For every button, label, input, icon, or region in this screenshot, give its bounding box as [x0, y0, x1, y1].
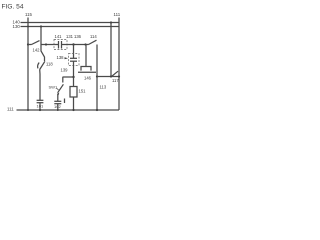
svg-text:114: 114 — [90, 34, 97, 39]
node dot at (73.5,110) — [72, 109, 74, 111]
wire: vertical from node (73.5,44.5) into dashed box 138 — [73, 45, 75, 59]
svg-text:146: 146 — [84, 76, 92, 81]
svg-text:115: 115 — [25, 12, 33, 17]
node dot at (73.5,77) — [72, 76, 74, 78]
wire: horizontal row y=77 from SW1 to node — [63, 76, 74, 78]
node dot on line2 feeding switch 118 — [40, 25, 42, 27]
switch SW1 blade — [58, 84, 64, 93]
svg-text:111: 111 — [7, 106, 14, 111]
node dot at (119,76.5) — [118, 75, 120, 77]
svg-text:139: 139 — [61, 68, 69, 73]
capacitor 141 plates — [58, 41, 60, 49]
svg-text:130: 130 — [13, 24, 21, 29]
capacitor 102 plates — [54, 100, 61, 102]
node dot at (28,26.5) — [27, 26, 29, 28]
wire: top bus line 2 — [21, 26, 120, 28]
wire: SW1 to capacitor 102 — [57, 94, 59, 102]
svg-text:138: 138 — [57, 55, 65, 60]
svg-text:141: 141 — [55, 34, 63, 39]
push button 146 actuator — [85, 45, 87, 67]
node dot at (28,110) — [27, 109, 29, 111]
wire: vertical x=97 from middle row to bottom bus — [96, 45, 98, 111]
wire: bottom bus — [17, 109, 120, 111]
svg-text:FIG. 54: FIG. 54 — [2, 3, 24, 10]
wire: middle row segment from switch 142 to capacitor box 141 — [41, 44, 59, 46]
svg-text:118: 118 — [46, 62, 53, 67]
wire: capacitor 102 to bottom bus — [57, 104, 59, 110]
node dot at (73.5,44.5) — [72, 43, 74, 45]
switch 118 blade — [40, 61, 45, 69]
wire: right switch row y=76.5 — [97, 76, 119, 78]
push button 146 contact bar — [78, 71, 96, 73]
wire: middle row segment from rail to switch 142 — [28, 44, 32, 46]
node dot at (97,110) — [96, 109, 98, 111]
svg-text:142: 142 — [33, 48, 41, 53]
dashed box around capacitor 138 — [69, 54, 80, 66]
node dot at (97,76.5) — [96, 75, 98, 77]
dashed box around capacitor 141 — [54, 40, 67, 50]
wire: right rail 119 — [118, 18, 120, 111]
wire: vertical from line2 down to switch 118 — [41, 27, 45, 62]
svg-text:117: 117 — [112, 78, 119, 83]
node dot at (46,44.5) — [45, 43, 47, 45]
wire: vertical from switch 118 down to capacitor 101 — [39, 70, 41, 101]
switch 117 blade — [112, 71, 119, 76]
wire: middle row segment from capacitor to switch 114 — [62, 44, 89, 46]
node dot at (111,76.5) — [110, 75, 112, 77]
switch SW1 top lead — [62, 77, 64, 83]
svg-text:SW1: SW1 — [49, 85, 58, 90]
switch 118 throw arc — [38, 63, 40, 69]
node dot at left rail on middle row — [27, 43, 29, 45]
capacitor 101 plates — [37, 99, 44, 101]
wire: below box 138 down to node row 77 and resistor — [73, 61, 75, 86]
svg-text:111: 111 — [114, 12, 121, 17]
node dot at (57.8,110) — [57, 109, 59, 111]
push button 146 bridge — [81, 67, 91, 71]
node dot at (38.8,110) — [39, 109, 41, 111]
capacitor 138 plates — [70, 57, 77, 59]
node dot at (86,44.5) — [84, 43, 86, 45]
SW1 label pointer — [56, 88, 58, 90]
switch 142 blade — [32, 41, 40, 45]
switch 114 blade — [89, 40, 97, 44]
node dot at (111,22.5) — [110, 21, 112, 23]
wire: vertical from line1 at x=111 — [110, 23, 112, 77]
svg-text:102: 102 — [54, 104, 61, 109]
svg-text:113: 113 — [100, 85, 107, 90]
svg-text:151: 151 — [79, 89, 87, 94]
tick mark right of capacitor 102 — [64, 99, 66, 104]
wire: resistor to bottom bus — [73, 97, 75, 110]
resistor 151 box — [70, 87, 77, 98]
wire: capacitor 101 to bottom bus — [39, 103, 41, 110]
wire: top bus line 1 — [21, 22, 120, 24]
svg-text:136: 136 — [74, 34, 82, 39]
svg-text:101: 101 — [37, 104, 44, 109]
wire: left rail — [27, 18, 29, 111]
svg-text:131: 131 — [66, 34, 74, 39]
switch SW1 arrowhead — [57, 93, 59, 96]
